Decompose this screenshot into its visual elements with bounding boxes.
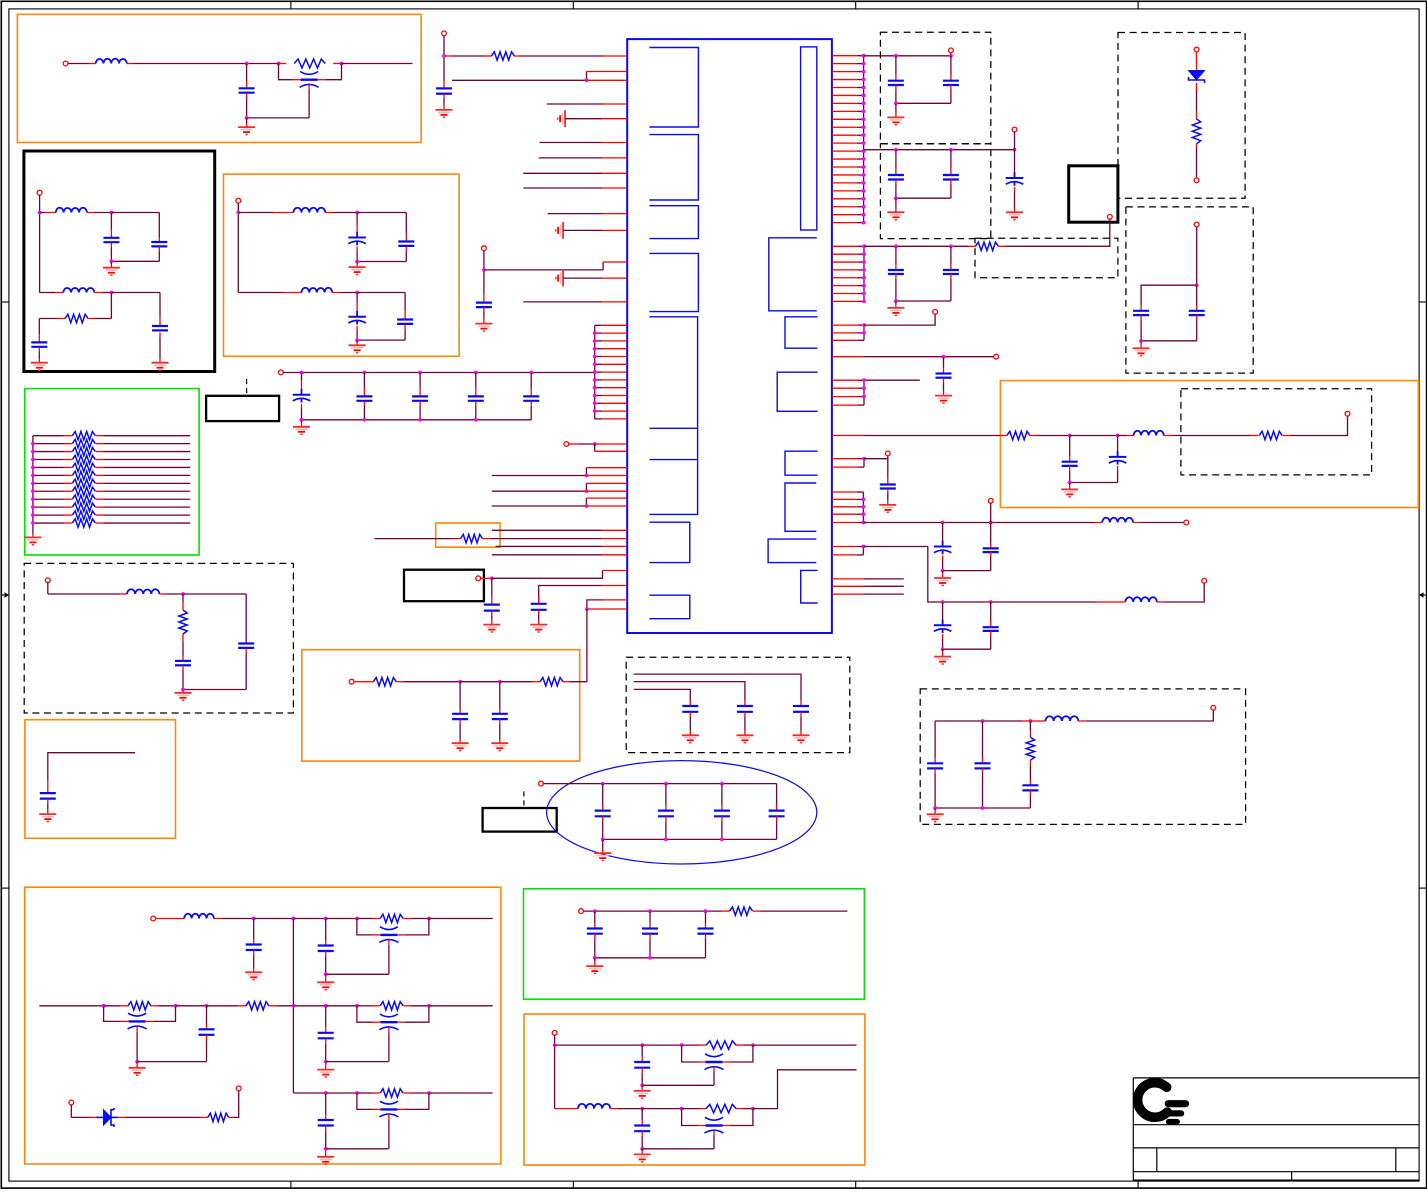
wire <box>950 53 952 56</box>
inductor L3 <box>63 288 94 293</box>
polarized cap C35 <box>934 523 952 571</box>
capacitor C39 <box>634 1045 650 1085</box>
capacitor C24 <box>888 56 904 104</box>
orange group box 2 <box>224 174 460 356</box>
wire <box>492 468 587 476</box>
wire <box>354 681 374 683</box>
junction <box>292 1004 296 1008</box>
pin <box>602 55 627 57</box>
junction <box>245 116 249 120</box>
left pin bus vertical <box>594 325 596 419</box>
capacitor C45 <box>199 1006 215 1062</box>
capacitor <box>682 701 699 743</box>
resistor array junctions <box>31 442 35 525</box>
wire <box>492 529 602 531</box>
ground <box>238 118 255 135</box>
wire <box>279 63 342 65</box>
port P5 <box>278 370 283 375</box>
long vertical <box>292 919 294 1094</box>
capacitor C4 <box>31 319 48 371</box>
pin <box>602 213 627 215</box>
inductor L2 <box>56 208 87 213</box>
resistor R1 <box>294 59 325 68</box>
wire <box>496 545 603 547</box>
wire <box>864 55 951 57</box>
wire <box>1104 583 1204 602</box>
junction <box>38 211 42 215</box>
wire <box>547 103 602 105</box>
junction <box>553 1043 557 1047</box>
wire <box>864 245 976 247</box>
wire <box>935 720 1030 722</box>
IC inner block L4 <box>649 253 698 311</box>
inductor L9 <box>1125 597 1157 602</box>
wire <box>555 1044 643 1046</box>
capacitor C26 <box>888 150 904 199</box>
right mid pins 1 <box>832 246 864 301</box>
port P8 <box>564 442 569 447</box>
ground <box>586 958 603 974</box>
no-connect wire <box>832 593 904 595</box>
right top bus junctions <box>862 54 866 225</box>
junction <box>102 1004 106 1008</box>
wire <box>293 918 325 920</box>
port P7 <box>482 246 487 251</box>
IC inner block L3 <box>649 206 698 239</box>
junction <box>941 569 945 573</box>
ground <box>887 301 904 315</box>
wire <box>1196 227 1198 286</box>
wire <box>39 195 41 293</box>
wire <box>151 1005 176 1007</box>
resistor array R3-R14 <box>72 432 95 528</box>
junction <box>751 1107 755 1111</box>
pin <box>602 301 627 303</box>
junction <box>949 54 953 58</box>
junctions <box>933 806 984 810</box>
ground <box>103 261 120 275</box>
wire <box>543 783 777 785</box>
wire <box>548 213 602 215</box>
pin <box>603 570 628 572</box>
IC inner block R8 <box>801 570 818 603</box>
resistor R21 <box>975 242 998 250</box>
junction <box>482 268 486 272</box>
IC inner block R3 <box>785 317 818 348</box>
wire <box>88 318 111 320</box>
wire <box>563 277 602 279</box>
junction <box>894 54 898 58</box>
wire <box>990 503 992 523</box>
wire <box>500 681 541 683</box>
wire <box>111 292 160 294</box>
capacitor C40 <box>634 1109 650 1149</box>
polarized cap C33 <box>1070 436 1127 483</box>
capacitor C10 <box>175 642 191 690</box>
feed-through cap FL1 frame <box>279 64 342 80</box>
wire <box>117 1116 208 1118</box>
wire <box>1283 416 1348 436</box>
junction <box>1068 434 1072 438</box>
junction <box>593 442 597 446</box>
pin <box>602 157 627 159</box>
junction <box>640 1107 644 1111</box>
no-connect wire <box>832 578 904 580</box>
pin <box>602 142 627 144</box>
capacitor C29 <box>888 246 904 301</box>
junction <box>174 1004 178 1008</box>
wire <box>452 72 587 81</box>
polarized cap C37 <box>934 602 952 649</box>
polarized cap C6 <box>348 213 366 262</box>
junction <box>894 299 898 303</box>
orange mini box resistor <box>436 523 500 547</box>
wire <box>1133 522 1184 524</box>
wire <box>342 63 413 65</box>
wire <box>39 1005 103 1007</box>
resistor R16 <box>491 52 514 60</box>
junction <box>680 1043 684 1047</box>
capacitor C38 <box>943 602 999 649</box>
wire <box>753 1070 857 1109</box>
ground <box>927 808 944 822</box>
wire <box>48 583 127 595</box>
right pins 5 <box>832 492 864 523</box>
left bus junctions <box>593 331 597 413</box>
capacitor C11 <box>183 643 254 690</box>
junction <box>862 457 866 461</box>
capacitor C31 <box>935 357 952 403</box>
resistor R28 <box>128 1002 151 1010</box>
junction <box>585 78 589 82</box>
feed-through FT2 <box>705 1117 724 1135</box>
right bus 4 <box>863 459 865 467</box>
resistor R15 <box>179 594 187 642</box>
pin <box>602 538 627 540</box>
wire <box>736 1108 753 1110</box>
inductor L5 <box>302 288 333 293</box>
capacitor C41 <box>927 721 943 808</box>
port P2 <box>37 190 42 195</box>
junction <box>498 680 502 684</box>
right mid pins 3 <box>832 380 864 405</box>
junction <box>894 101 898 105</box>
right mid junctions 2 <box>862 323 866 335</box>
wire <box>269 1005 294 1007</box>
junctions <box>601 838 724 842</box>
capacitor C32 <box>1062 436 1078 483</box>
capacitor C47 <box>1141 285 1205 341</box>
wire <box>238 212 293 214</box>
wire <box>229 1091 239 1118</box>
resistor R23 <box>1259 431 1282 439</box>
wire <box>753 910 848 912</box>
port P19 <box>885 451 890 456</box>
junction <box>1195 283 1199 287</box>
junction <box>458 680 462 684</box>
orange group box middle <box>302 650 580 761</box>
inductor L4 <box>294 208 326 213</box>
ground <box>934 571 951 586</box>
junction <box>181 592 185 596</box>
dashed box three caps middle <box>626 657 850 752</box>
resistor R26 <box>706 1104 736 1112</box>
junction <box>585 474 589 478</box>
junctions decoupling bottom <box>300 418 478 422</box>
pin <box>602 103 627 105</box>
wire <box>864 314 935 325</box>
analog ground <box>556 222 563 239</box>
wire <box>736 1044 753 1046</box>
polarized cap C13 <box>293 373 311 420</box>
wire <box>71 1105 98 1118</box>
right mid junctions 1 <box>862 244 866 303</box>
wire <box>238 292 301 294</box>
feed-through FT2 frame <box>682 1109 753 1126</box>
ground <box>349 262 366 275</box>
feed-through FT1 <box>705 1054 724 1072</box>
wire <box>1164 435 1259 437</box>
port P25 <box>552 1031 557 1036</box>
resistor R24 <box>730 907 753 915</box>
ground <box>129 1062 146 1076</box>
right mid junctions 3 <box>862 386 866 398</box>
analog ground <box>558 110 565 127</box>
inductor L7 <box>1134 431 1164 436</box>
capacitor <box>793 701 810 743</box>
dashed box top-right 1 <box>880 32 990 144</box>
wire <box>871 435 1008 437</box>
resistor R27 <box>1026 721 1034 767</box>
black box jumper 3 <box>483 808 557 832</box>
wire <box>569 443 595 445</box>
wire <box>594 444 596 451</box>
wire <box>523 301 602 303</box>
pin <box>602 172 627 174</box>
wire <box>583 910 729 912</box>
pin <box>602 118 627 120</box>
resistor R25 <box>706 1041 736 1049</box>
wire <box>998 219 1110 246</box>
wire <box>155 918 184 920</box>
port P29 <box>236 1086 241 1091</box>
wire <box>492 483 587 491</box>
capacitor C20 <box>483 578 500 632</box>
port P18 <box>1345 411 1350 416</box>
wire <box>642 1084 714 1086</box>
capacitor C12 <box>39 780 56 822</box>
pin <box>586 483 627 491</box>
wire <box>540 142 603 144</box>
capacitor <box>714 784 730 840</box>
port P13 <box>1194 47 1199 52</box>
wire <box>642 1044 681 1046</box>
wire <box>563 681 587 683</box>
company logo <box>1138 1083 1186 1122</box>
wire <box>137 1061 206 1063</box>
wire <box>634 682 745 701</box>
resistor R30 <box>208 1113 229 1121</box>
wire <box>753 1044 857 1046</box>
capacitor <box>587 911 603 958</box>
junction <box>941 600 993 604</box>
wire <box>136 1032 138 1062</box>
port P22 <box>1202 578 1207 583</box>
junction <box>355 291 359 295</box>
wire <box>254 918 294 920</box>
junction <box>862 545 866 549</box>
capacitor C9 <box>357 293 413 341</box>
pin <box>602 545 627 547</box>
wire <box>481 577 492 579</box>
RC feed-through unit row3 <box>317 1089 493 1164</box>
wire <box>682 1108 707 1110</box>
resistor R19 <box>540 678 563 686</box>
IC inner block L2 <box>649 135 698 200</box>
resistor array output wires <box>104 436 191 523</box>
port P11 <box>949 48 954 53</box>
capacitor C1 <box>239 64 255 118</box>
wire <box>357 212 406 214</box>
wire <box>1070 435 1118 437</box>
pin <box>586 468 627 476</box>
ground <box>1061 483 1078 497</box>
capacitor C25 <box>896 56 959 104</box>
pin <box>603 261 627 263</box>
junction <box>340 62 344 66</box>
right top pins <box>832 56 864 223</box>
wire <box>40 292 64 294</box>
port P20 <box>988 498 993 503</box>
dashed stub above jumper 3 <box>523 791 525 808</box>
rail <box>595 957 706 959</box>
left bus pins <box>595 325 628 419</box>
port P27 <box>151 916 156 921</box>
black group box left <box>24 151 215 372</box>
ground <box>349 340 366 353</box>
wire <box>104 1005 129 1007</box>
capacitor C23 <box>491 682 508 751</box>
wire <box>111 213 159 238</box>
junction <box>245 62 249 66</box>
resistor R2 <box>65 314 88 322</box>
black box jumper 2 <box>404 570 484 602</box>
junction <box>894 148 1016 152</box>
wire <box>396 681 460 683</box>
ground <box>887 103 904 125</box>
wire <box>176 1005 207 1007</box>
capacitor C3 <box>111 238 167 261</box>
pin <box>832 547 864 555</box>
wire <box>483 538 602 540</box>
inductor L10 <box>555 1104 618 1109</box>
wire <box>864 379 920 381</box>
junction <box>355 211 359 215</box>
wire <box>1196 144 1198 178</box>
zener diode D1 <box>1189 71 1205 84</box>
blue ellipse highlight <box>547 761 817 864</box>
capacitor C21 <box>530 596 547 632</box>
IC inner block L7 <box>649 595 689 619</box>
capacitor C34 <box>879 459 896 513</box>
wire <box>237 203 239 293</box>
port P30 <box>1194 222 1199 227</box>
capacitor C36 <box>943 523 999 571</box>
junction <box>181 688 185 692</box>
wire <box>94 292 111 294</box>
wire <box>554 1035 556 1109</box>
wire <box>375 538 461 540</box>
junction <box>640 1147 644 1151</box>
wire <box>68 63 96 65</box>
junction <box>593 371 597 375</box>
junction <box>1139 339 1143 343</box>
pin <box>602 554 627 556</box>
junction <box>442 54 446 58</box>
dashed box series resistor <box>975 238 1118 277</box>
port P4 <box>45 578 50 583</box>
wire <box>110 293 112 319</box>
junction <box>585 607 589 611</box>
wire <box>1030 720 1045 722</box>
junction <box>355 338 359 342</box>
wire <box>127 63 279 65</box>
resistor array bus wires <box>33 436 64 523</box>
capacitor C7 <box>357 213 414 262</box>
wire <box>283 372 596 374</box>
wire <box>492 498 587 506</box>
pin <box>603 585 628 587</box>
feed-through FT3 frame <box>104 1006 176 1022</box>
IC inner block L6 <box>649 522 689 562</box>
dashed box bottom-right <box>920 689 1245 825</box>
wire <box>514 55 602 57</box>
dashed box zener <box>1118 33 1245 199</box>
pin <box>595 444 628 451</box>
capacitor C5 <box>152 293 169 371</box>
black box right (module) <box>1069 166 1118 222</box>
wire <box>642 1148 714 1150</box>
wire <box>539 586 603 604</box>
wire <box>492 571 603 579</box>
port P23 <box>539 781 544 786</box>
capacitor C43 <box>1022 767 1038 809</box>
decoupling bottom rail <box>302 419 532 421</box>
frame mid-right arrow <box>1419 592 1427 597</box>
bottom rail <box>935 807 1030 809</box>
wire <box>444 55 492 57</box>
capacitor C46 <box>1133 305 1149 341</box>
pin <box>587 600 627 609</box>
IC inner block R4 <box>777 372 817 411</box>
wire <box>40 212 56 214</box>
wire <box>460 681 500 683</box>
port P3 <box>236 198 241 203</box>
wire <box>539 157 602 159</box>
pin <box>602 277 627 279</box>
ground <box>24 531 41 545</box>
ground <box>934 649 951 664</box>
dashed group box left-middle <box>24 563 293 713</box>
orange group box small left <box>25 720 176 839</box>
dashed box top-right 2 <box>880 144 990 239</box>
wire <box>1014 132 1016 150</box>
junction <box>680 1107 684 1111</box>
junction <box>277 62 281 66</box>
ellipse bottom rail <box>603 838 777 840</box>
junction <box>135 1060 139 1064</box>
junction <box>640 1083 644 1087</box>
